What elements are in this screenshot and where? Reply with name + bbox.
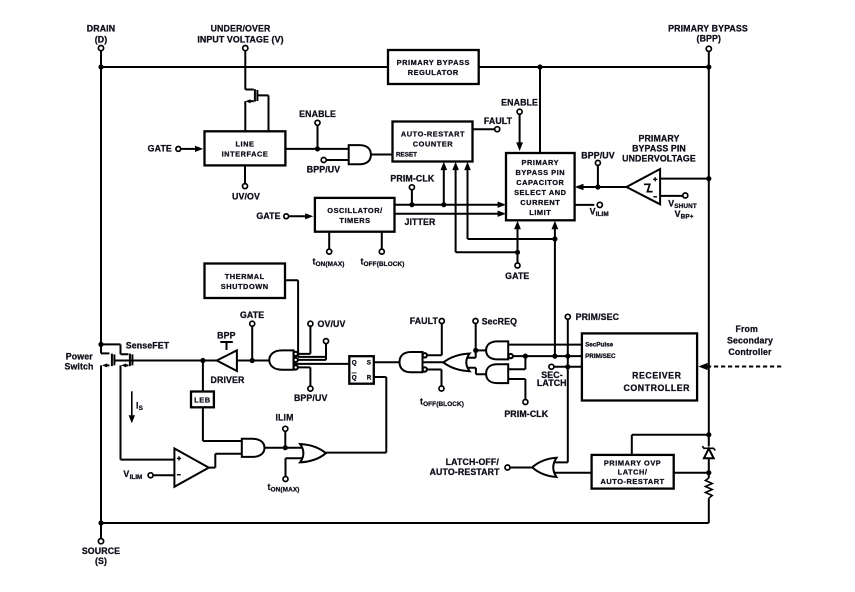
wire unnamed pin to bubble B2 bbox=[298, 344, 326, 360]
svg-text:LIMIT: LIMIT bbox=[529, 208, 551, 217]
wire comparator plus input to rail bbox=[660, 178, 709, 180]
wire comparator output arrow into B5 bbox=[581, 186, 628, 188]
svg-text:TIMERS: TIMERS bbox=[339, 216, 370, 225]
svg-text:V: V bbox=[123, 469, 129, 479]
wire LEB path bbox=[202, 361, 204, 392]
pin PRIMARY BYPASS (BPP) bbox=[668, 23, 748, 51]
svg-text:BPP/UV: BPP/UV bbox=[307, 164, 340, 174]
junction rail at OVP right bbox=[706, 470, 711, 475]
wire top rail left bbox=[101, 66, 388, 68]
svg-text:FAULT: FAULT bbox=[410, 316, 439, 326]
svg-text:CAPACITOR: CAPACITOR bbox=[516, 178, 564, 187]
svg-text:LATCH/: LATCH/ bbox=[618, 468, 648, 477]
dashed arrow from secondary controller bbox=[698, 324, 782, 370]
svg-text:JITTER: JITTER bbox=[404, 217, 436, 227]
wire oscillator JITTER row bbox=[395, 213, 502, 215]
wire PRIM/SEC riser bbox=[567, 319, 569, 367]
pin UV/OV bbox=[232, 165, 260, 201]
svg-text:PRIMARY BYPASS: PRIMARY BYPASS bbox=[668, 23, 748, 33]
svg-text:PRIM/SEC: PRIM/SEC bbox=[585, 353, 616, 360]
svg-text:PRIM/SEC: PRIM/SEC bbox=[576, 312, 620, 322]
wire shared gate row to driver bbox=[114, 360, 216, 362]
junction rail at comparator bbox=[706, 176, 711, 181]
pin tOFF(BLOCK) bbox=[361, 232, 405, 268]
pin PRIM/SEC bbox=[565, 312, 619, 322]
junction gate pin node bbox=[250, 358, 255, 363]
svg-text:OV/UV: OV/UV bbox=[318, 319, 346, 329]
wire bppuv stub bbox=[326, 159, 349, 161]
svg-text:LATCH-OFF/: LATCH-OFF/ bbox=[446, 457, 500, 467]
zener diode VR1 bbox=[702, 446, 715, 458]
pin SOURCE (S) bbox=[82, 523, 120, 566]
pin LATCH-OFF/AUTO-RESTART bbox=[430, 457, 533, 477]
junction BPP/UV node bbox=[595, 184, 600, 189]
and-gate G7 bbox=[242, 439, 265, 457]
pin ILIM bbox=[275, 412, 293, 447]
pin PRIM-CLK (top) bbox=[390, 173, 434, 204]
label Is current arrow bbox=[129, 391, 144, 423]
junction driver gate node bbox=[200, 358, 205, 363]
block PRIMARY BYPASS REGULATOR bbox=[388, 50, 479, 84]
wire gate arrow into oscillator bbox=[289, 215, 307, 217]
svg-text:FAULT: FAULT bbox=[484, 116, 513, 126]
wire riser A to counter bbox=[443, 167, 445, 205]
junction power switch drain bbox=[98, 342, 103, 347]
wire sec-latch riser down to G9 bbox=[555, 367, 568, 463]
wire G8 output to FF R riser bbox=[326, 452, 386, 454]
svg-text:Q: Q bbox=[352, 359, 357, 366]
pin FAULT (G3 input) bbox=[410, 316, 445, 355]
svg-text:BPP/UV: BPP/UV bbox=[581, 151, 614, 161]
svg-text:BYPASS PIN: BYPASS PIN bbox=[515, 168, 565, 177]
wire G4 upper input to SecREQ node bbox=[467, 350, 475, 357]
svg-text:THERMAL: THERMAL bbox=[225, 272, 265, 281]
svg-text:(S): (S) bbox=[95, 556, 107, 566]
transistor SenseFET bbox=[101, 344, 132, 367]
wire driver input row bbox=[237, 360, 269, 362]
comparator ILIM (current limit) bbox=[174, 449, 208, 487]
svg-text:COUNTER: COUNTER bbox=[413, 140, 454, 149]
junction prim-clk row bbox=[409, 202, 414, 207]
svg-text:GATE: GATE bbox=[148, 143, 172, 153]
svg-text:Power: Power bbox=[66, 352, 93, 362]
comparator PRIMARY BYPASS PIN UNDERVOLTAGE bbox=[622, 134, 696, 205]
block OSCILLATOR/TIMERS bbox=[315, 198, 395, 232]
wire line interface output bbox=[285, 148, 348, 150]
and-gate G3 (S-input logic) bbox=[400, 352, 427, 372]
pin VSHUNT / VBP+ bbox=[660, 193, 697, 220]
svg-text:BYPASS PIN: BYPASS PIN bbox=[632, 144, 686, 154]
pin SecREQ bbox=[473, 316, 517, 326]
block PRIMARY BYPASS PIN CAPACITOR SELECT AND CURRENT LIMIT bbox=[506, 153, 575, 220]
wire right rail bbox=[708, 51, 710, 523]
or-gate G9 (latch select) bbox=[532, 458, 556, 477]
wire long riser into B5 bbox=[554, 227, 556, 240]
svg-text:ILIM: ILIM bbox=[130, 474, 143, 481]
and-gate G2 (driver logic, 4 inputs) bbox=[269, 350, 298, 369]
wire enable to node bbox=[317, 125, 319, 149]
and-gate G1 bbox=[349, 145, 371, 164]
svg-text:SecREQ: SecREQ bbox=[482, 316, 517, 326]
pin VILIM (B5 output) bbox=[575, 202, 609, 218]
svg-text:UV/OV: UV/OV bbox=[232, 191, 260, 201]
pin tOFF(BLOCK) (G3 input) bbox=[420, 370, 464, 408]
or-gate G4 bbox=[443, 354, 469, 372]
wire rail to B5 top bbox=[539, 67, 541, 153]
svg-text:Controller: Controller bbox=[728, 347, 772, 357]
svg-text:ENABLE: ENABLE bbox=[299, 109, 336, 119]
wire G9 lower input to OVP box bbox=[555, 472, 592, 474]
block RECEIVER CONTROLLER bbox=[582, 333, 697, 400]
wire LEB to G7 bbox=[203, 407, 242, 441]
svg-text:PRIMARY: PRIMARY bbox=[638, 134, 679, 144]
pin DRAIN (D) bbox=[87, 23, 115, 50]
junction top rail at drain bbox=[98, 64, 103, 69]
svg-text:S: S bbox=[367, 359, 371, 366]
junction top rail at BPP bbox=[706, 64, 711, 69]
pin tON(MAX) bbox=[313, 232, 345, 268]
junction PRIM/SEC row b bbox=[552, 354, 557, 359]
transistor M1 line-sense FET bbox=[245, 89, 268, 131]
svg-text:CONTROLLER: CONTROLLER bbox=[624, 383, 691, 393]
svg-text:SHUTDOWN: SHUTDOWN bbox=[221, 282, 269, 291]
pin ENABLE (upper) bbox=[299, 109, 336, 125]
svg-text:RECEIVER: RECEIVER bbox=[632, 371, 681, 381]
svg-text:DRAIN: DRAIN bbox=[87, 23, 115, 33]
svg-text:AUTO-RESTART: AUTO-RESTART bbox=[600, 477, 664, 486]
svg-text:R: R bbox=[367, 374, 372, 381]
pin BPP/UV (comparator) bbox=[581, 151, 614, 187]
svg-text:LINE: LINE bbox=[235, 140, 254, 149]
wire comparator output to G7 bbox=[209, 454, 242, 468]
wire G4 output to G3 middle input bbox=[423, 361, 445, 363]
svg-text:RESET: RESET bbox=[396, 152, 417, 159]
svg-text:(BPP): (BPP) bbox=[697, 34, 722, 44]
wire oscillator PRIM-CLK row bbox=[395, 204, 502, 206]
flip-flop U2 bbox=[349, 356, 374, 384]
svg-text:BPP: BPP bbox=[217, 331, 235, 341]
label Power Switch bbox=[64, 352, 93, 372]
svg-text:ILIM: ILIM bbox=[275, 412, 293, 422]
junction enable/line-interface node bbox=[315, 146, 320, 151]
wire SecREQ riser bbox=[475, 324, 477, 351]
wire G1 output to counter reset bbox=[371, 154, 393, 156]
svg-text:PRIMARY BYPASS: PRIMARY BYPASS bbox=[397, 58, 470, 67]
wire left rail lower bbox=[100, 365, 102, 523]
svg-text:(D): (D) bbox=[95, 35, 108, 45]
pin BPP/UV (gate G1 input) bbox=[307, 158, 340, 175]
wire gate pin to driver row bbox=[251, 326, 253, 360]
svg-text:INPUT VOLTAGE (V): INPUT VOLTAGE (V) bbox=[197, 35, 283, 45]
svg-text:Switch: Switch bbox=[64, 362, 93, 372]
wire G7 output row bbox=[265, 447, 302, 449]
driver amplifier U1 bbox=[217, 350, 237, 371]
pin tON(MAX) (G8 input) bbox=[268, 458, 303, 493]
svg-text:SOURCE: SOURCE bbox=[82, 546, 120, 556]
wire sensefet source sense line down bbox=[121, 365, 175, 459]
svg-text:CURRENT: CURRENT bbox=[520, 198, 560, 207]
wire SecREQ node to G5 bbox=[476, 349, 486, 351]
svg-text:OSCILLATOR/: OSCILLATOR/ bbox=[327, 206, 382, 215]
wire h239 to long riser bbox=[468, 238, 555, 240]
wire left rail upper bbox=[100, 67, 102, 353]
svg-text:AUTO-RESTART: AUTO-RESTART bbox=[401, 130, 465, 139]
svg-text:SELECT AND: SELECT AND bbox=[514, 188, 567, 197]
pin GATE (driver node) bbox=[240, 310, 264, 326]
svg-text:BPP/UV: BPP/UV bbox=[294, 393, 327, 403]
junction ILIM node bbox=[283, 445, 288, 450]
pin SEC-LATCH bbox=[537, 364, 567, 388]
wire G3 output to FF S bbox=[374, 361, 400, 363]
pin UNDER/OVER INPUT VOLTAGE (V) bbox=[197, 23, 283, 50]
junction PRIM/SEC row a bbox=[523, 354, 528, 359]
junction top rail at x540 bbox=[537, 64, 542, 69]
svg-text:UNDER/OVER: UNDER/OVER bbox=[211, 23, 271, 33]
junction SecREQ node bbox=[473, 348, 478, 353]
pin GATE (oscillator input) bbox=[256, 211, 288, 221]
svg-text:GATE: GATE bbox=[256, 211, 280, 221]
svg-text:REGULATOR: REGULATOR bbox=[408, 68, 459, 77]
block THERMAL SHUTDOWN bbox=[205, 264, 286, 299]
wire drain stub bbox=[100, 51, 102, 67]
and-gate G5 (SecPulse logic) bbox=[486, 341, 513, 359]
svg-text:Secondary: Secondary bbox=[727, 335, 773, 345]
junction riser A bbox=[441, 202, 446, 207]
block LINE INTERFACE bbox=[205, 131, 286, 165]
pin PRIM-CLK (bottom) bbox=[504, 379, 548, 419]
svg-text:AUTO-RESTART: AUTO-RESTART bbox=[430, 467, 501, 477]
wire G4 lower input to G6 output bbox=[467, 368, 486, 374]
block PRIMARY OVP LATCH/AUTO-RESTART bbox=[592, 455, 674, 489]
wire enable arrow into B5 bbox=[519, 114, 521, 143]
wire riser C to counter bbox=[467, 167, 469, 239]
svg-text:From: From bbox=[735, 324, 758, 334]
transistor power switch bbox=[101, 353, 114, 367]
wire ovuv to bubble B1 bbox=[298, 326, 310, 354]
svg-text:UNDERVOLTAGE: UNDERVOLTAGE bbox=[622, 154, 696, 164]
svg-text:INTERFACE: INTERFACE bbox=[222, 150, 269, 159]
svg-text:PRIMARY: PRIMARY bbox=[521, 158, 559, 167]
pin unnamed (above G2) bbox=[324, 339, 329, 344]
pin VILIM (left) bbox=[123, 469, 174, 481]
wire h252 to gate riser bbox=[456, 251, 518, 253]
wire SEC-LATCH row bbox=[554, 366, 582, 368]
power tap BPP above driver bbox=[217, 331, 235, 350]
svg-text:SecPulse: SecPulse bbox=[585, 342, 614, 349]
pin BPP/UV (below G2) bbox=[294, 386, 327, 403]
pin OV/UV bbox=[308, 319, 346, 329]
junction PRIM/SEC row c bbox=[565, 354, 570, 359]
svg-text:Q: Q bbox=[352, 374, 357, 381]
wire thermal shutdown to gate G2 bbox=[285, 280, 326, 357]
svg-text:LATCH: LATCH bbox=[537, 378, 567, 388]
wire gate riser into B5 bbox=[517, 227, 519, 253]
junction rail at OVP top bbox=[706, 432, 711, 437]
wire bppuv to bubble B3 bbox=[298, 367, 310, 386]
junction gate node bbox=[515, 250, 520, 255]
resistor R1 bbox=[705, 478, 712, 498]
wire top rail right bbox=[479, 66, 709, 68]
svg-text:GATE: GATE bbox=[240, 310, 264, 320]
junction long riser node bbox=[552, 236, 557, 241]
wire PRIM/SEC row bbox=[513, 355, 582, 357]
and-gate G6 (PRIM-CLK logic) bbox=[486, 364, 508, 383]
svg-text:SenseFET: SenseFET bbox=[126, 340, 170, 350]
svg-text:GATE: GATE bbox=[505, 271, 529, 281]
svg-text:PRIMARY OVP: PRIMARY OVP bbox=[604, 458, 661, 467]
pin GATE (B5) bbox=[505, 252, 529, 280]
junction SEC-LATCH node bbox=[565, 364, 570, 369]
wire FF R input riser bbox=[374, 377, 387, 453]
svg-text:DRIVER: DRIVER bbox=[211, 375, 245, 385]
wire riser B to counter bbox=[455, 167, 457, 252]
pin GATE (line interface input) bbox=[148, 143, 181, 153]
svg-text:PRIM-CLK: PRIM-CLK bbox=[390, 173, 434, 183]
wire OVP right to rail bbox=[674, 472, 709, 474]
wire OVP top to rail bbox=[632, 435, 709, 455]
svg-text:LEB: LEB bbox=[194, 395, 210, 404]
pin FAULT (counter output) bbox=[473, 116, 513, 132]
wire V pin stub bbox=[244, 51, 246, 90]
wire SecPulse row bbox=[508, 344, 582, 346]
pin ENABLE (to B5) bbox=[501, 97, 538, 114]
or-gate G8 bbox=[300, 444, 326, 462]
svg-text:ENABLE: ENABLE bbox=[501, 97, 538, 107]
wire G6 in1 to PRIM/SEC row bbox=[508, 356, 525, 369]
junction source node bbox=[98, 520, 103, 525]
wire FF Q to G2 plain input bbox=[294, 363, 350, 365]
wire long riser down to PRIM/SEC row bbox=[554, 239, 556, 356]
wire bottom rail bbox=[101, 522, 709, 524]
block LEB bbox=[191, 392, 214, 408]
wire gate arrow into line interface bbox=[181, 148, 197, 150]
block AUTO-RESTART COUNTER bbox=[393, 122, 473, 162]
svg-text:PRIM-CLK: PRIM-CLK bbox=[504, 409, 548, 419]
